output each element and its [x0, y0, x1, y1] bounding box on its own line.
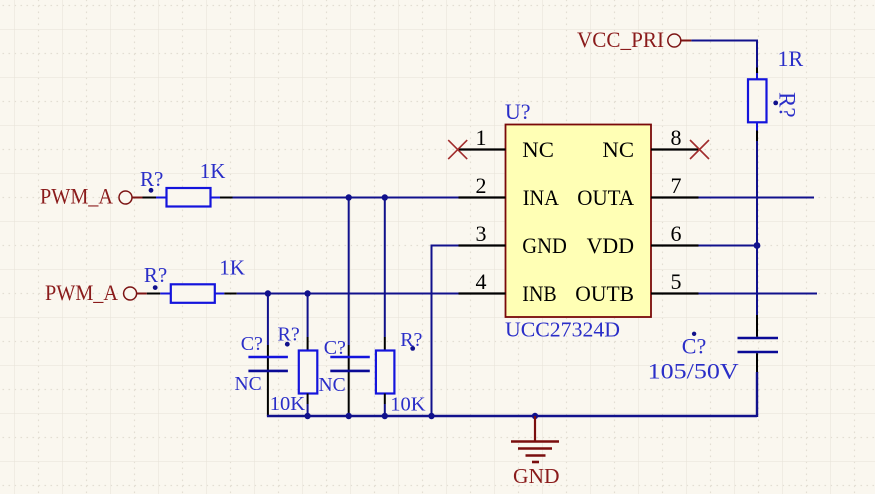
resistor R? 10K (first) [270, 324, 318, 416]
resistor R? 1K (top) [140, 159, 233, 207]
junction on net B at x=307.6 [304, 290, 310, 296]
svg-text:3: 3 [476, 221, 487, 246]
no-connect X on pin 8 [690, 140, 709, 159]
svg-text:7: 7 [671, 173, 682, 198]
svg-text:OUTA: OUTA [577, 185, 634, 210]
svg-text:1: 1 [476, 125, 487, 150]
svg-text:1K: 1K [200, 159, 226, 183]
svg-text:2: 2 [476, 173, 487, 198]
resistor R? 1R (vertical) [748, 46, 804, 141]
pin 1 NC (left top) [459, 125, 554, 162]
svg-text:R?: R? [775, 92, 800, 118]
junction on net B at x=267.9 [265, 290, 271, 296]
junction at pin 6 / VCC vertical [754, 242, 761, 249]
svg-text:R?: R? [278, 324, 300, 346]
pin 5 OUTB [575, 269, 698, 306]
wire resistor R3 to bottom rail [307, 404, 309, 416]
junction on net A at x=348.7 [346, 194, 352, 200]
svg-text:NC: NC [522, 137, 554, 162]
power port VCC_PRI [577, 27, 691, 52]
capacitor C? NC (second) [319, 337, 370, 416]
junction rail x=348.7 [346, 413, 352, 419]
wire net B (PWM_A bottom to pin 4) [237, 293, 459, 295]
svg-text:GND: GND [522, 233, 567, 258]
pin 4 INB [459, 269, 557, 306]
junction rail x=384.8 [382, 413, 388, 419]
svg-text:INB: INB [522, 281, 556, 306]
wire net A down to resistor R4 [384, 198, 386, 338]
pin 6 VDD [587, 221, 699, 258]
svg-text:1K: 1K [219, 256, 245, 280]
capacitor C? 105/50V [648, 315, 778, 384]
svg-text:UCC27324D: UCC27324D [505, 318, 620, 342]
pin 2 INA [459, 173, 559, 210]
svg-text:5: 5 [671, 269, 682, 294]
svg-text:10K: 10K [390, 394, 426, 416]
svg-text:PWM_A: PWM_A [40, 184, 113, 209]
svg-text:1R: 1R [778, 46, 804, 71]
wire net B down to capacitor C1 [267, 294, 269, 346]
junction rail x=535 (GND) [532, 413, 538, 419]
wire VCC_PRI to resistor R5 [691, 41, 757, 68]
svg-text:4: 4 [476, 269, 487, 294]
svg-text:C?: C? [324, 337, 346, 359]
wire VCC vertical (R5 down to capacitor) [756, 141, 758, 315]
wire net B down to resistor R3 [307, 294, 309, 338]
wire net A (PWM_A top to pin 2) [233, 197, 459, 199]
wire pin 3 to GND net (horizontal + vertical) [432, 246, 459, 417]
junction rail x=307.6 [304, 413, 310, 419]
capacitor C? NC (first) [235, 333, 288, 416]
junction on net A at x=384.8 [382, 194, 388, 200]
svg-text:R?: R? [144, 263, 167, 287]
wire bottom ground rail [267, 415, 757, 417]
wire from pin 5 OUTB to the right [699, 293, 818, 295]
svg-text:C?: C? [241, 333, 263, 355]
wire resistor R4 to bottom rail [384, 404, 386, 416]
pin 3 GND [459, 221, 567, 258]
op-amp/IC U? UCC27324D box [505, 99, 651, 342]
resistor R? 10K (second) [376, 329, 426, 416]
no-connect X on pin 1 [448, 140, 467, 159]
svg-text:U?: U? [505, 99, 531, 124]
svg-text:NC: NC [319, 375, 346, 396]
wire big capacitor down to rail corner [756, 372, 758, 417]
wire from pin 7 OUTA to the right [699, 197, 815, 199]
svg-text:VCC_PRI: VCC_PRI [577, 27, 664, 52]
svg-text:INA: INA [523, 185, 559, 210]
svg-text:10K: 10K [270, 393, 306, 415]
wire from pin 6 VDD to VCC net [699, 245, 758, 247]
ground GND power symbol [511, 416, 560, 488]
port PWM_A (top) [40, 184, 143, 209]
svg-text:6: 6 [671, 221, 682, 246]
svg-text:OUTB: OUTB [575, 281, 634, 306]
svg-text:VDD: VDD [587, 233, 634, 258]
svg-text:PWM_A: PWM_A [45, 280, 118, 305]
svg-text:R?: R? [140, 167, 163, 191]
svg-text:NC: NC [235, 374, 262, 395]
svg-text:105/50V: 105/50V [648, 359, 739, 384]
pin 7 OUTA [577, 173, 698, 210]
resistor R? 1K (bottom) [144, 256, 245, 303]
svg-text:8: 8 [671, 125, 682, 150]
port PWM_A (bottom) [45, 280, 147, 305]
svg-text:NC: NC [602, 137, 634, 162]
svg-text:C?: C? [682, 334, 706, 359]
wire net A down to capacitor C2 [348, 198, 350, 346]
svg-text:GND: GND [513, 464, 560, 488]
junction rail x=431.5 [428, 413, 434, 419]
pin 8 NC (right top) [602, 125, 698, 162]
